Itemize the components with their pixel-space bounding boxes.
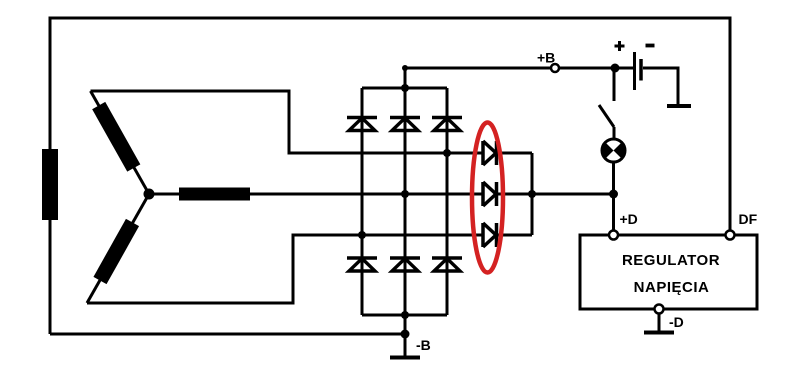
svg-text:DF: DF xyxy=(739,211,758,227)
svg-text:REGULATOR: REGULATOR xyxy=(622,252,720,269)
svg-text:-D: -D xyxy=(669,314,684,330)
svg-text:-B: -B xyxy=(416,337,431,353)
svg-text:+D: +D xyxy=(620,211,638,227)
svg-text:+B: +B xyxy=(537,50,555,66)
svg-text:NAPIĘCIA: NAPIĘCIA xyxy=(634,279,710,296)
